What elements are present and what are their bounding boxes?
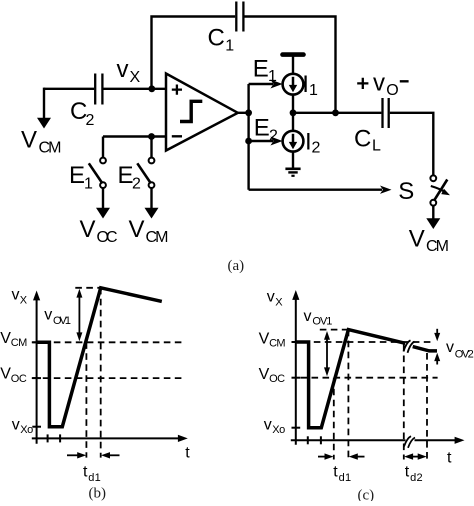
capacitor C1 bbox=[208, 2, 244, 55]
dimension vOV2 c bbox=[434, 329, 474, 365]
wire vX waveform c bbox=[296, 330, 406, 428]
svg-text:t: t bbox=[185, 444, 190, 461]
node peak dashed vertical b bbox=[100, 288, 102, 458]
node threshold crossing dashed vertical b bbox=[85, 342, 87, 457]
op-amp U1 comparator bbox=[166, 74, 238, 151]
capacitor CL bbox=[354, 98, 389, 155]
VCM source left arrow bbox=[21, 88, 62, 157]
svg-text:2: 2 bbox=[269, 128, 278, 145]
svg-text:V: V bbox=[0, 366, 11, 383]
svg-text:t: t bbox=[83, 463, 88, 480]
svg-text:d1: d1 bbox=[88, 472, 101, 484]
wire switch to VCM arrow bbox=[409, 206, 449, 255]
break axis t c bbox=[404, 436, 415, 448]
wire E2 to VCM arrow bbox=[129, 188, 169, 246]
wire - input bbox=[103, 135, 166, 137]
svg-text:C: C bbox=[208, 25, 225, 52]
svg-text:1: 1 bbox=[84, 176, 93, 193]
tick VOC axis c bbox=[292, 377, 301, 379]
svg-text:v: v bbox=[267, 289, 275, 306]
svg-text:OC: OC bbox=[97, 229, 118, 246]
wire feedback top bbox=[152, 17, 336, 110]
tick t1 axis b bbox=[47, 434, 49, 442]
svg-text:V: V bbox=[80, 216, 96, 243]
svg-text:v: v bbox=[446, 339, 454, 356]
node VOC crossing dashed vertical c bbox=[333, 378, 335, 460]
wire between sources bbox=[292, 95, 294, 131]
wire S control bbox=[249, 178, 415, 205]
svg-text:OV2: OV2 bbox=[455, 349, 474, 361]
node peak dashed level b bbox=[75, 287, 100, 289]
axis y b bbox=[12, 286, 41, 443]
supply bar bbox=[283, 55, 304, 74]
wire CL to switch bbox=[390, 113, 434, 176]
current source I2 bbox=[283, 129, 321, 157]
svg-text:V: V bbox=[409, 226, 425, 253]
label + vO - bbox=[357, 69, 408, 99]
svg-text:(c): (c) bbox=[358, 487, 375, 501]
svg-text:V: V bbox=[21, 127, 37, 154]
tick vXo axis c bbox=[292, 427, 301, 429]
node vX bbox=[117, 56, 156, 92]
svg-text:v: v bbox=[12, 286, 20, 303]
svg-text:V: V bbox=[259, 366, 270, 383]
node vO bbox=[290, 109, 297, 116]
svg-text:X: X bbox=[130, 69, 141, 86]
svg-text:I: I bbox=[302, 71, 309, 98]
label VCM c bbox=[259, 330, 286, 349]
svg-text:t: t bbox=[447, 450, 452, 467]
node feedback junction bbox=[332, 109, 339, 116]
svg-text:OC: OC bbox=[269, 373, 285, 385]
svg-text:d2: d2 bbox=[410, 472, 423, 484]
svg-text:v: v bbox=[373, 69, 385, 96]
ground bbox=[285, 152, 300, 176]
svg-text:CM: CM bbox=[426, 238, 449, 255]
node VCM dashed level c bbox=[314, 341, 432, 343]
node peak dashed vertical c bbox=[347, 330, 349, 460]
tick VCM axis b bbox=[32, 341, 41, 343]
tick vXo axis b bbox=[32, 426, 41, 428]
switch S right bbox=[430, 175, 451, 205]
svg-text:OV1: OV1 bbox=[312, 316, 332, 328]
label vXo b bbox=[12, 417, 34, 437]
dimension vOV1 b bbox=[44, 289, 82, 341]
svg-text:v: v bbox=[44, 307, 52, 324]
wire op-amp output bbox=[238, 112, 249, 114]
svg-text:d1: d1 bbox=[339, 472, 352, 484]
node td2 left dashed vertical c bbox=[403, 345, 405, 460]
svg-text:V: V bbox=[129, 216, 145, 243]
label vXo c bbox=[264, 417, 286, 437]
wire vO to CL bbox=[293, 112, 381, 114]
wire E1 to VOC arrow bbox=[80, 188, 118, 246]
svg-text:E: E bbox=[69, 162, 85, 189]
svg-text:C: C bbox=[354, 125, 371, 152]
dimension vOV1 c bbox=[304, 308, 333, 376]
switch E1 bbox=[69, 137, 106, 193]
svg-text:2: 2 bbox=[132, 176, 141, 193]
svg-text:v: v bbox=[117, 56, 129, 83]
label VOC c bbox=[259, 366, 286, 385]
svg-text:OV1: OV1 bbox=[53, 315, 71, 327]
svg-text:V: V bbox=[0, 330, 11, 347]
svg-text:Xo: Xo bbox=[20, 424, 33, 436]
tick t2 axis c bbox=[320, 436, 322, 444]
svg-text:O: O bbox=[386, 82, 398, 99]
svg-text:OC: OC bbox=[11, 373, 27, 385]
svg-text:1: 1 bbox=[268, 68, 277, 85]
wire output vertical bus bbox=[247, 84, 249, 190]
node td2 right dashed vertical c bbox=[426, 353, 428, 460]
dimension td2 c bbox=[404, 453, 427, 484]
svg-text:(a): (a) bbox=[228, 258, 245, 274]
tick t2 axis b bbox=[59, 434, 61, 442]
svg-text:S: S bbox=[398, 178, 414, 205]
wire C2 left to VCM bbox=[44, 88, 94, 90]
svg-text:1: 1 bbox=[225, 38, 234, 55]
svg-text:v: v bbox=[12, 417, 20, 434]
svg-text:L: L bbox=[372, 138, 381, 155]
node E2 junction bbox=[245, 138, 252, 145]
wire + input bbox=[104, 88, 167, 90]
node peak dashed level c bbox=[320, 329, 349, 331]
svg-text:X: X bbox=[275, 297, 283, 309]
tick VOC axis b bbox=[32, 377, 41, 379]
node VOC dashed level c bbox=[301, 377, 438, 379]
svg-text:CM: CM bbox=[39, 140, 62, 157]
wire vX waveform b bbox=[37, 288, 162, 427]
svg-text:v: v bbox=[304, 308, 312, 325]
svg-text:t: t bbox=[333, 464, 338, 481]
svg-text:2: 2 bbox=[86, 112, 95, 129]
svg-text:Xo: Xo bbox=[272, 424, 285, 436]
axis t c bbox=[291, 437, 465, 467]
svg-text:E: E bbox=[254, 115, 270, 142]
node VOC dashed level b bbox=[32, 377, 184, 379]
svg-text:1: 1 bbox=[309, 82, 318, 99]
svg-text:X: X bbox=[20, 295, 28, 307]
wire vX waveform after break c bbox=[413, 347, 437, 351]
switch E2 bbox=[118, 137, 155, 193]
svg-text:t: t bbox=[405, 464, 410, 481]
node VCM dashed level b bbox=[32, 341, 184, 343]
svg-text:2: 2 bbox=[312, 140, 321, 157]
svg-text:V: V bbox=[259, 330, 270, 347]
label VOC b bbox=[0, 366, 27, 385]
svg-text:CM: CM bbox=[146, 229, 169, 246]
node - input junction bbox=[148, 133, 155, 140]
tick t1 axis c bbox=[307, 436, 309, 444]
svg-text:E: E bbox=[253, 55, 269, 82]
node output bbox=[245, 109, 252, 116]
current source I1 bbox=[283, 71, 318, 99]
capacitor C2 bbox=[70, 74, 102, 130]
svg-text:v: v bbox=[264, 417, 272, 434]
tick VCM axis c bbox=[292, 341, 301, 343]
wire E1 control with arrow bbox=[249, 55, 283, 88]
svg-text:(b): (b) bbox=[89, 486, 107, 501]
wire E2 control with arrow bbox=[249, 115, 283, 146]
dimension td1 b bbox=[67, 452, 120, 484]
svg-text:CM: CM bbox=[269, 338, 286, 350]
break waveform c bbox=[404, 340, 415, 353]
label VCM b bbox=[0, 330, 27, 349]
dimension td1 c bbox=[318, 453, 365, 484]
svg-text:CM: CM bbox=[11, 337, 28, 349]
axis t b bbox=[32, 435, 191, 462]
axis y c bbox=[267, 289, 300, 445]
